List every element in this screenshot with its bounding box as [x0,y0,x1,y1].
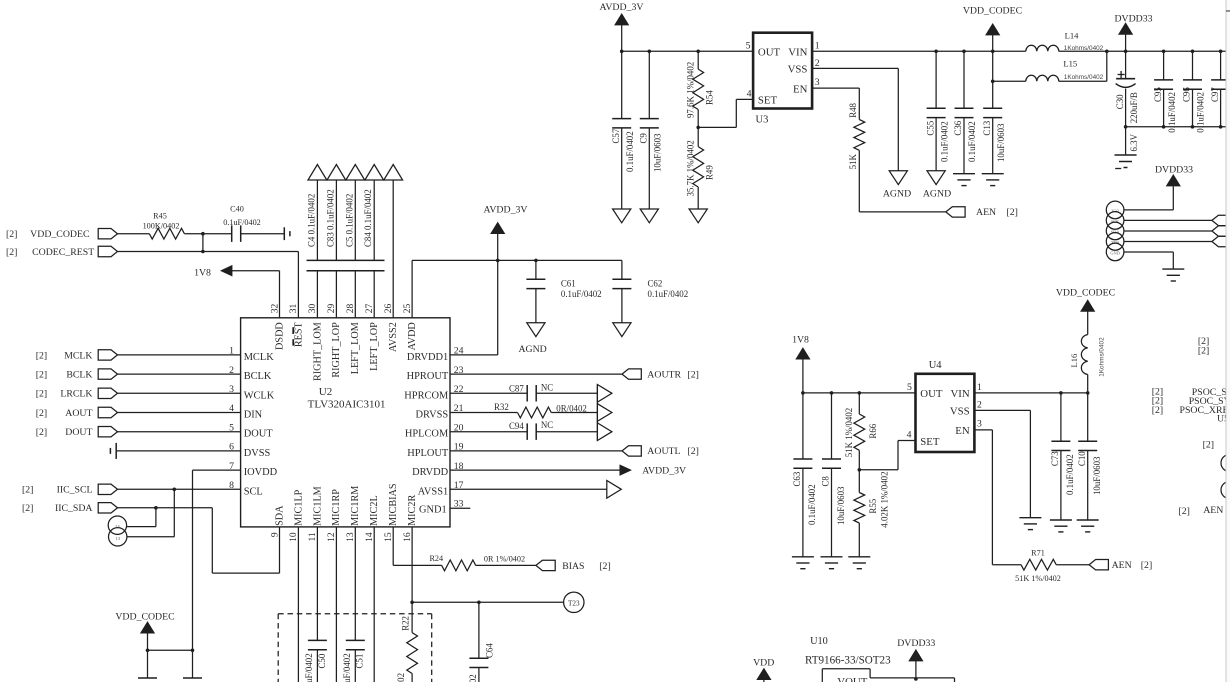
svg-text:C95: C95 [1153,87,1163,102]
svg-text:DRVDD: DRVDD [412,467,449,478]
svg-text:C36: C36 [953,120,963,135]
svg-text:1K/0402: 1K/0402 [396,673,406,682]
svg-text:MCLK: MCLK [64,350,92,361]
svg-text:MICBIAS: MICBIAS [388,483,399,526]
svg-text:0.1uF/0402: 0.1uF/0402 [625,131,635,172]
svg-text:0R/0402: 0R/0402 [556,404,587,414]
svg-text:MCLK: MCLK [244,352,275,363]
svg-text:R22: R22 [401,616,411,631]
svg-text:VDD: VDD [753,658,774,669]
svg-text:MIC1LP: MIC1LP [293,489,304,526]
svg-text:AOUTL: AOUTL [647,446,680,457]
svg-text:10uF/0603: 10uF/0603 [1092,456,1102,495]
svg-text:AEN: AEN [976,207,996,218]
svg-text:24: 24 [115,524,120,529]
svg-text:[2]: [2] [22,485,33,496]
svg-text:1: 1 [977,382,982,393]
svg-text:AEN: AEN [1112,560,1132,571]
svg-text:C40: C40 [230,205,244,214]
svg-text:[2]: [2] [599,561,610,572]
svg-text:AVDD_3V: AVDD_3V [484,205,528,216]
svg-text:T23: T23 [568,600,580,608]
svg-text:9: 9 [270,532,280,537]
svg-text:[2]: [2] [1203,440,1214,451]
svg-text:IOVDD: IOVDD [244,467,278,478]
svg-text:VSS: VSS [788,64,808,76]
svg-text:AVDD_3V: AVDD_3V [600,2,644,13]
svg-text:NC: NC [541,383,553,393]
svg-text:0.1uF/0402: 0.1uF/0402 [1065,454,1075,495]
svg-text:0.1uF/0402: 0.1uF/0402 [223,218,261,227]
svg-text:220uF/B: 220uF/B [1129,92,1139,123]
svg-text:L14: L14 [1065,30,1080,40]
svg-text:C4 0.1uF/0402: C4 0.1uF/0402 [306,194,316,247]
svg-text:10uF/0603: 10uF/0603 [996,123,1006,162]
svg-text:15: 15 [384,532,394,542]
svg-text:AVDD: AVDD [407,322,418,350]
svg-text:[2]: [2] [1179,506,1190,517]
svg-text:35.7K 1%/0402: 35.7K 1%/0402 [685,140,695,196]
svg-text:5: 5 [907,382,912,393]
svg-text:MIC1LM: MIC1LM [312,486,323,526]
svg-text:U3: U3 [756,114,769,125]
svg-text:AGND: AGND [518,344,546,355]
svg-text:0.1uF/0402: 0.1uF/0402 [561,289,602,299]
svg-text:IIC_SCL: IIC_SCL [57,485,93,496]
svg-text:28: 28 [346,303,356,313]
svg-text:R66: R66 [868,423,878,438]
svg-text:0.1uF/0402: 0.1uF/0402 [939,121,949,162]
svg-text:[2]: [2] [1198,346,1209,357]
svg-text:VIN: VIN [788,47,807,59]
svg-text:C97: C97 [1210,87,1220,102]
svg-text:3: 3 [815,77,820,88]
svg-text:MIC2L: MIC2L [369,495,380,526]
svg-text:VDD_CODEC: VDD_CODEC [115,611,174,622]
svg-text:DRVDD1: DRVDD1 [407,352,448,363]
svg-text:GND1: GND1 [419,504,447,515]
svg-text:DVDD33: DVDD33 [1155,164,1193,175]
svg-text:MIC1RP: MIC1RP [331,489,342,526]
svg-text:C63: C63 [792,471,802,486]
svg-text:U2: U2 [319,386,332,398]
svg-text:BIAS: BIAS [562,561,584,572]
svg-text:[2]: [2] [688,446,699,457]
svg-text:0.1uF/0402: 0.1uF/0402 [1196,92,1206,133]
svg-text:U10: U10 [810,636,828,647]
svg-text:[2]: [2] [1152,405,1163,416]
svg-text:WCLK: WCLK [244,390,275,401]
svg-text:R32: R32 [494,402,509,412]
svg-text:HPLOUT: HPLOUT [407,448,449,459]
svg-text:C8: C8 [821,476,831,487]
svg-text:DOUT: DOUT [244,429,274,440]
svg-text:AOUT: AOUT [65,408,92,419]
svg-text:C13: C13 [982,120,992,135]
svg-text:R48: R48 [848,102,858,117]
svg-text:R49: R49 [705,165,715,180]
svg-text:C57: C57 [611,128,621,143]
svg-text:C61: C61 [561,278,576,288]
svg-text:2: 2 [815,58,820,69]
svg-text:R71: R71 [1031,549,1045,558]
svg-text:DVDD33: DVDD33 [1114,14,1152,25]
svg-text:C30: C30 [1115,94,1125,109]
svg-text:30: 30 [308,303,318,313]
svg-text:[2]: [2] [6,229,17,240]
svg-text:[2]: [2] [688,369,699,380]
svg-text:0.1uF/0402: 0.1uF/0402 [1167,92,1177,133]
svg-text:0.1uF/0402: 0.1uF/0402 [967,121,977,162]
svg-text:0402: 0402 [468,674,478,682]
svg-text:MIC2R: MIC2R [407,495,418,526]
svg-text:C83 0.1uF/0402: C83 0.1uF/0402 [325,189,335,247]
svg-text:6.3V: 6.3V [1129,133,1139,151]
svg-text:SET: SET [920,436,940,448]
svg-text:11: 11 [308,532,318,541]
svg-text:29: 29 [327,303,337,313]
svg-text:VOUT: VOUT [837,676,867,682]
svg-text:AVDD_3V: AVDD_3V [642,466,686,477]
svg-text:C50: C50 [317,653,327,668]
svg-text:25: 25 [403,303,413,313]
svg-text:[2]: [2] [36,350,47,361]
svg-text:HPROUT: HPROUT [407,371,449,382]
svg-text:1Kohms/0402: 1Kohms/0402 [1099,337,1106,377]
svg-text:RT9166-33/SOT23: RT9166-33/SOT23 [805,655,891,667]
svg-text:REST: REST [293,321,304,347]
svg-text:[2]: [2] [6,247,17,258]
svg-text:5: 5 [746,40,751,51]
svg-text:DVSS: DVSS [244,448,271,459]
svg-text:31: 31 [289,303,299,313]
svg-text:VIN: VIN [950,388,969,400]
svg-text:DVDD33: DVDD33 [897,638,935,649]
svg-text:C94: C94 [509,421,524,431]
svg-text:DRVSS: DRVSS [416,410,449,421]
svg-text:1: 1 [815,40,820,51]
svg-text:[2]: [2] [1007,207,1018,218]
svg-text:26: 26 [384,303,394,313]
svg-text:C5 0.1uF/0402: C5 0.1uF/0402 [344,194,354,247]
svg-text:SET: SET [758,95,778,107]
svg-text:RIGHT_LOP: RIGHT_LOP [331,322,342,378]
svg-text:R24: R24 [429,554,443,563]
svg-text:100K/0402: 100K/0402 [143,221,180,230]
svg-text:NC: NC [541,420,553,430]
svg-text:C9: C9 [639,133,649,144]
svg-text:LEFT_LOP: LEFT_LOP [369,322,380,371]
svg-text:10: 10 [289,532,299,542]
svg-text:AGND: AGND [883,189,911,200]
svg-text:13: 13 [115,536,120,541]
svg-text:51K 1%/0402: 51K 1%/0402 [844,408,854,458]
svg-text:SDA: SDA [274,505,285,526]
svg-text:LRCLK: LRCLK [60,389,92,400]
svg-text:0R 1%/0402: 0R 1%/0402 [484,555,525,564]
svg-text:HPLCOM: HPLCOM [405,429,448,440]
svg-text:0.1uF/0402: 0.1uF/0402 [342,653,352,682]
svg-text:VDD_CODEC: VDD_CODEC [963,6,1022,17]
svg-text:16: 16 [403,532,413,542]
svg-text:[2]: [2] [22,503,33,514]
svg-text:51K: 51K [848,154,858,170]
svg-text:1Kohms/0402: 1Kohms/0402 [1064,74,1104,81]
svg-text:C84 0.1uF/0402: C84 0.1uF/0402 [363,189,373,247]
svg-text:4.02K 1%/0402: 4.02K 1%/0402 [879,471,889,527]
svg-text:L16: L16 [1069,353,1079,368]
svg-text:BCLK: BCLK [244,371,272,382]
svg-text:10uF/0603: 10uF/0603 [836,486,846,525]
svg-text:C55: C55 [925,120,935,135]
svg-text:C51: C51 [355,654,365,669]
svg-text:DSDD: DSDD [274,322,285,350]
svg-text:C73: C73 [1050,451,1060,466]
svg-text:VDD_CODEC: VDD_CODEC [30,229,89,240]
svg-text:VSS: VSS [950,406,970,418]
svg-text:U4: U4 [929,360,943,371]
svg-text:EN: EN [955,425,970,437]
svg-text:13: 13 [346,532,356,542]
svg-text:AOUTR: AOUTR [647,369,681,380]
svg-text:1V8: 1V8 [792,335,809,346]
svg-text:MIC1RM: MIC1RM [350,486,361,526]
svg-text:4: 4 [747,88,752,99]
svg-text:0.1uF/0402: 0.1uF/0402 [304,653,314,682]
svg-text:OUT: OUT [920,388,943,400]
svg-text:IIC_SDA: IIC_SDA [55,503,93,514]
svg-text:C10: C10 [1077,451,1087,466]
svg-text:AGND: AGND [923,189,951,200]
svg-text:EN: EN [793,83,808,95]
svg-text:AVSS2: AVSS2 [388,322,399,352]
svg-text:SCL: SCL [244,486,263,497]
svg-text:32: 32 [270,303,280,313]
svg-text:C62: C62 [648,278,663,288]
svg-text:1V8: 1V8 [194,267,211,278]
svg-text:[2]: [2] [36,370,47,381]
svg-text:1Kohms/0402: 1Kohms/0402 [1064,45,1104,52]
svg-text:GND: GND [1110,250,1120,255]
svg-text:10uF/0603: 10uF/0603 [653,133,663,172]
svg-text:CODEC_REST: CODEC_REST [32,247,94,258]
svg-text:2: 2 [977,400,982,411]
svg-text:VDD_CODEC: VDD_CODEC [1056,287,1115,298]
svg-text:4: 4 [907,430,912,441]
svg-text:DIN: DIN [244,410,263,421]
svg-text:51K 1%/0402: 51K 1%/0402 [1015,574,1061,583]
svg-text:C64: C64 [485,643,495,658]
svg-text:BCLK: BCLK [66,370,92,381]
svg-text:TLV320AIC3101: TLV320AIC3101 [308,399,386,411]
svg-text:0.1uF/0402: 0.1uF/0402 [648,289,689,299]
svg-text:LEFT_LOM: LEFT_LOM [350,322,361,374]
svg-text:HPRCOM: HPRCOM [404,390,448,401]
svg-text:[2]: [2] [1141,560,1152,571]
svg-text:12: 12 [327,532,337,542]
svg-text:R54: R54 [705,90,715,105]
svg-text:AVSS1: AVSS1 [418,486,448,497]
svg-text:C96: C96 [1182,87,1192,102]
svg-text:OUT: OUT [758,47,781,59]
svg-text:L15: L15 [1063,59,1077,69]
svg-text:DOUT: DOUT [65,427,92,438]
svg-text:97.6K 1%/0402: 97.6K 1%/0402 [685,62,695,118]
svg-text:[2]: [2] [36,408,47,419]
svg-text:RIGHT_LOM: RIGHT_LOM [312,322,323,381]
svg-text:R45: R45 [153,212,167,221]
svg-text:AEN: AEN [1203,505,1223,516]
svg-text:[2]: [2] [36,427,47,438]
svg-text:0.1uF/0402: 0.1uF/0402 [807,484,817,525]
svg-text:3: 3 [977,419,982,430]
svg-text:C87: C87 [509,384,524,394]
svg-text:R55: R55 [868,498,878,513]
svg-text:[2]: [2] [36,389,47,400]
